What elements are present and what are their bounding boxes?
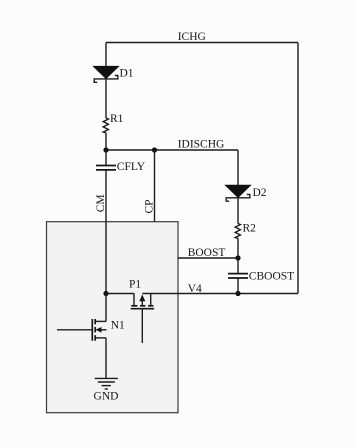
svg-text:ICHG: ICHG: [178, 31, 206, 43]
wire R2 to BOOST node: [237, 238, 239, 258]
node junction CM: [103, 147, 108, 152]
svg-text:IDISCHG: IDISCHG: [178, 138, 225, 150]
wire CM node to CFLY: [105, 150, 107, 166]
transistor P1: [131, 294, 154, 344]
wire D2 cathode to R2: [237, 198, 239, 224]
wire N1 source to ground: [105, 338, 107, 379]
wire right rail: [297, 43, 299, 294]
node junction CM/P1/N1: [103, 291, 108, 296]
wire CBOOST to V4: [237, 278, 239, 294]
svg-text:BOOST: BOOST: [188, 247, 226, 259]
wire D2 anode: [237, 150, 239, 186]
wire BOOST node to CBOOST: [237, 258, 239, 274]
svg-text:P1: P1: [129, 278, 141, 290]
IC block outline: [47, 222, 179, 413]
svg-text:CP: CP: [143, 199, 155, 213]
wire CM node to P1: [106, 293, 134, 295]
wire top rail ICHG: [106, 42, 298, 44]
capacitor CFLY: [96, 166, 116, 170]
wire CM into block: [105, 170, 107, 294]
transistor N1: [57, 319, 107, 341]
resistor R1: [103, 118, 108, 133]
node junction CP: [152, 147, 157, 152]
wire D1 anode: [105, 43, 107, 67]
node junction V4: [235, 291, 240, 296]
svg-text:D1: D1: [120, 68, 134, 80]
wire N1 drain: [105, 294, 107, 322]
svg-text:D2: D2: [253, 187, 267, 199]
wire R1 to CM node: [105, 133, 107, 150]
resistor R2: [235, 224, 240, 239]
ground: [95, 378, 118, 389]
svg-text:R2: R2: [243, 223, 257, 235]
wire V4: [142, 293, 298, 295]
node junction BOOST: [235, 255, 240, 260]
wire IDISCHG horizontal: [106, 149, 238, 151]
svg-text:GND: GND: [94, 391, 119, 403]
diode D1: [94, 66, 119, 82]
svg-text:CBOOST: CBOOST: [249, 271, 294, 283]
diode D2: [226, 185, 251, 201]
wire D1 cathode to R1: [105, 79, 107, 118]
svg-text:R1: R1: [110, 113, 124, 125]
svg-text:N1: N1: [111, 320, 125, 332]
wire CP: [154, 150, 156, 222]
svg-text:V4: V4: [188, 283, 202, 295]
capacitor CBOOST: [228, 274, 248, 278]
wire BOOST: [178, 257, 238, 259]
svg-text:CFLY: CFLY: [117, 161, 146, 173]
svg-text:CM: CM: [95, 194, 107, 212]
